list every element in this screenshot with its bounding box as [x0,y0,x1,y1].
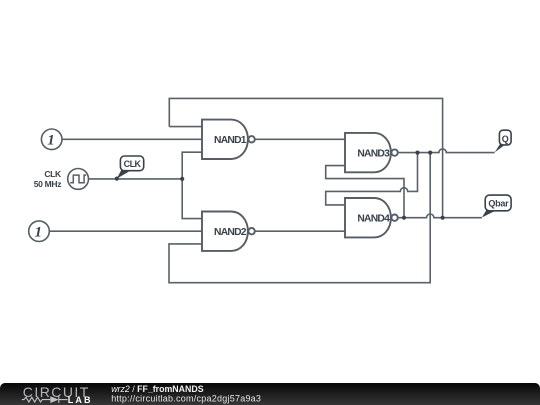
svg-text:1: 1 [35,224,43,240]
svg-text:LAB: LAB [68,395,93,405]
svg-text:CLK: CLK [124,159,142,169]
svg-text:Q: Q [502,134,509,144]
svg-text:Qbar: Qbar [488,199,509,209]
svg-text:NAND1: NAND1 [214,135,247,146]
svg-text:1: 1 [47,132,55,148]
svg-text:NAND2: NAND2 [214,227,247,238]
svg-text:http://circuitlab.com/cpa2dgj5: http://circuitlab.com/cpa2dgj57a9a3 [111,394,261,404]
svg-text:NAND4: NAND4 [357,214,390,225]
svg-text:50 MHz: 50 MHz [34,179,62,189]
svg-text:wrz2 / FF_fromNANDS: wrz2 / FF_fromNANDS [111,384,204,394]
svg-text:CLK: CLK [44,169,62,179]
svg-text:NAND3: NAND3 [357,148,390,159]
